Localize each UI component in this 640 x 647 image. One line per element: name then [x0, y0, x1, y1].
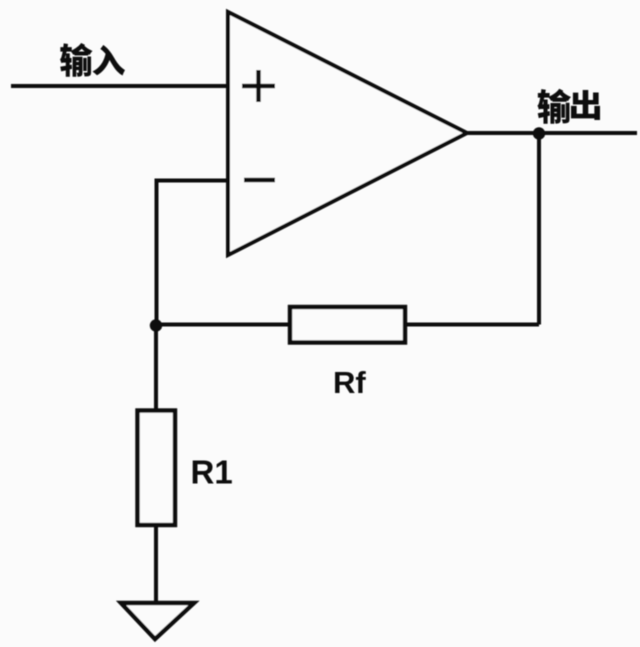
op-amp plus input marker	[242, 70, 275, 102]
ground	[121, 603, 194, 639]
wire: Rf to output branch	[403, 323, 539, 327]
svg-text:Rf: Rf	[333, 365, 366, 400]
op-amp minus input marker	[244, 178, 275, 182]
label 输入 (input)	[60, 43, 125, 77]
wire: R1 to ground	[154, 525, 158, 603]
svg-text:R1: R1	[191, 454, 233, 491]
wire: input line	[11, 84, 228, 88]
label 输出 (output)	[537, 89, 600, 124]
node A junction dot	[150, 319, 162, 331]
wire: node A down to R1	[154, 325, 158, 412]
op-amp U1	[228, 12, 467, 255]
wire: node A to Rf	[156, 323, 292, 327]
wire: inverting input feedback run	[157, 181, 229, 326]
wire: feedback vertical riser	[537, 133, 541, 325]
resistor R1	[138, 411, 176, 526]
resistor Rf	[290, 307, 405, 343]
wire: output line	[467, 131, 637, 135]
node B output junction dot	[533, 127, 545, 139]
